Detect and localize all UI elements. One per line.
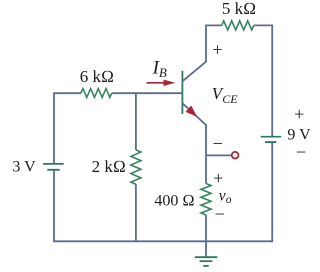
battery V1 3V long plate [43,163,64,165]
resistor R1 6k zigzag [81,89,112,98]
battery V2 9V short plate [265,141,276,143]
ground bar 3 [203,265,208,267]
resistor R2 2k zigzag [131,150,141,184]
svg-text:+: + [212,40,222,60]
transistor Q1 base bar [181,71,183,114]
wire left vertical (top section) [53,92,55,163]
wire collector vertical [205,25,207,62]
wire right vertical (top section) [271,25,273,137]
transistor Q1 collector diagonal [182,62,206,82]
wire right vertical (bottom section) [271,143,273,241]
wire left vertical (bottom section) [53,171,55,242]
svg-text:6 kΩ: 6 kΩ [80,67,114,86]
wire below 400 to ground [205,215,207,257]
svg-text:9 V: 9 V [287,127,311,144]
terminal open circle [232,152,239,159]
svg-text:−: − [213,134,223,154]
label IB current arrow [147,82,166,84]
wire 2k branch lower [135,184,137,241]
transistor Q1 emitter diagonal [182,103,206,125]
wire bottom rail [53,240,273,242]
svg-text:+: + [213,168,223,188]
transistor Q1 emitter arrowhead [186,106,198,117]
svg-text:5 kΩ: 5 kΩ [222,0,256,18]
svg-text:+: + [294,104,304,124]
wire top-left horizontal (base feed) [54,92,182,94]
battery V2 9V long plate [261,136,281,138]
svg-text:400 Ω: 400 Ω [154,192,194,209]
wire 2k branch upper [135,93,137,150]
wire emitter vertical to 400 [205,124,207,183]
ground bar 1 [195,256,218,258]
svg-text:−: − [296,142,306,162]
svg-text:3 V: 3 V [12,159,36,176]
resistor R3 5k zigzag [222,21,254,30]
svg-text:−: − [215,204,225,224]
resistor R4 400 zigzag [201,184,211,216]
ground bar 2 [200,260,213,262]
wire output stub [206,154,231,156]
wire top rail [205,24,273,26]
svg-text:2 kΩ: 2 kΩ [92,157,126,176]
battery V1 3V short plate [47,169,59,171]
